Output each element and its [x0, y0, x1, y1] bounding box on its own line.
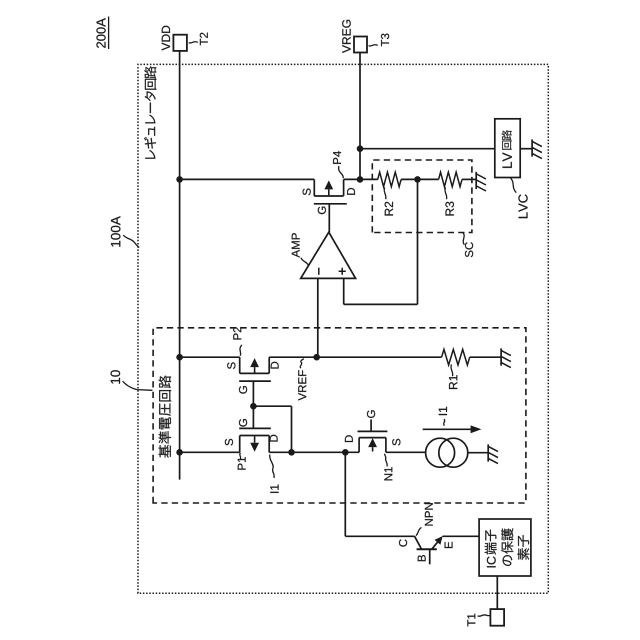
pin label D of P4 [347, 188, 355, 195]
terminal T3 (VREG pad) [354, 37, 367, 53]
wire VREG rail [359, 53, 361, 180]
resistor R2 [360, 172, 418, 187]
label NPN with lead squiggle [416, 503, 433, 535]
label R2 with lead squiggle [384, 187, 393, 215]
label regulator-circuit (katakana) [144, 66, 156, 158]
label R1 with lead squiggle [449, 364, 457, 389]
label LVC with lead squiggle [510, 178, 527, 218]
label VDD [162, 26, 170, 51]
pin label B of NPN [418, 555, 426, 561]
label reference-voltage-circuit (kanji) [159, 376, 171, 458]
label T2 with lead squiggle [189, 33, 208, 46]
wire VDD rail [179, 51, 181, 480]
label T3 with lead squiggle [369, 34, 390, 47]
IC terminal protection element block [479, 519, 531, 576]
node on VDD rail to P1 [176, 449, 183, 456]
pin label D of N1 [345, 435, 353, 442]
wire NPN collector [345, 452, 414, 536]
label P4 with lead squiggle [333, 151, 343, 178]
resistor R3 [418, 172, 477, 187]
label AMP with lead squiggle [292, 233, 309, 265]
pin label G of N1 [367, 410, 375, 418]
resistor R1 [442, 349, 502, 365]
wire VREG to LV circuit [360, 148, 495, 150]
transistor P1 (PMOS, mirrored) [239, 428, 271, 452]
node on VDD rail to P2 [176, 354, 183, 361]
wire N1 source to current source [386, 451, 426, 453]
pin label D of P1 [270, 435, 278, 442]
node VREF [313, 354, 320, 361]
wire gate link down to P1 drain [253, 406, 291, 452]
LV circuit block LVC [495, 119, 520, 178]
node R2-R3 junction [414, 176, 421, 183]
node NPN collector branch [342, 449, 349, 456]
label I1 at P1 drain with lead squiggle [270, 455, 279, 493]
dashed box SC around R2 R3 [372, 160, 472, 233]
pin label S of P1 [225, 439, 233, 446]
wire LV circuit to ground [520, 148, 532, 150]
pin label S of P4 [303, 189, 311, 196]
wire P2 drain VREF node down to R1 [269, 356, 441, 358]
node gate link [250, 403, 257, 410]
wire gate link P1-P2 [252, 381, 254, 428]
wire non-inverting input feedback path [344, 179, 418, 304]
transistor P2 (PMOS) [239, 357, 271, 381]
node VREG at P4 drain branch [357, 176, 364, 183]
label ~I1 at current source [439, 407, 447, 426]
ground at current source [488, 444, 498, 463]
label T1 with lead squiggle [467, 614, 490, 627]
terminal T2 (VDD pad) [173, 35, 187, 51]
ground at R3 [476, 172, 486, 191]
ground at R1 [501, 348, 511, 367]
wire IC protection block to T1 [496, 576, 498, 609]
label SC with lead squiggle [463, 233, 473, 257]
pin label E of NPN [445, 542, 453, 548]
pin label S of P2 [227, 362, 235, 369]
wire VDD to P1 source [180, 451, 240, 453]
pin label G of P1 [239, 419, 247, 427]
wire VDD to P2 source [180, 356, 240, 358]
current source I1 (double circle) [426, 438, 468, 467]
op-amp AMP [301, 232, 356, 278]
wire VDD to P4 source [180, 178, 315, 180]
reference voltage circuit dashed box 10 [153, 328, 526, 503]
pin label S of N1 [392, 439, 400, 446]
transistor NPN bipolar [415, 536, 443, 564]
label 100A with lead line [111, 216, 139, 247]
wire P4 drain to VREG rail [344, 178, 360, 180]
current direction arrow I1 [423, 425, 482, 433]
pin label G of P2 [239, 386, 247, 394]
node P1 drain diode connection [288, 449, 295, 456]
wire NPN emitter to IC protection block [443, 535, 480, 537]
pin label D of P2 [271, 362, 279, 369]
label N1 with lead squiggle [384, 454, 392, 481]
node VREG to LV circuit branch [357, 145, 364, 152]
wire current source to ground [468, 452, 488, 454]
label R3 with lead squiggle [445, 187, 454, 215]
ground at LV circuit [532, 139, 542, 158]
transistor N1 (NMOS) [358, 420, 388, 453]
label VREG [342, 20, 350, 53]
wire P1 drain down to N1 drain [269, 451, 359, 453]
terminal T1 pad [490, 609, 504, 626]
label 10 with lead line [111, 370, 153, 390]
label P1 with lead squiggle [238, 453, 246, 470]
figure label 200A [96, 17, 108, 50]
transistor P4 (PMOS) [314, 179, 347, 203]
label P2 with lead squiggle [233, 327, 242, 356]
label VREF with tilde [298, 359, 306, 401]
pin label G of P4 [318, 207, 326, 215]
node on VDD rail to P4 [176, 176, 183, 183]
pin label C of NPN [399, 539, 407, 546]
wire inverting input to VREF node [317, 278, 319, 357]
wire op-amp output to P4 gate [328, 204, 330, 232]
regulator circuit outer dotted box 200A [138, 64, 548, 593]
